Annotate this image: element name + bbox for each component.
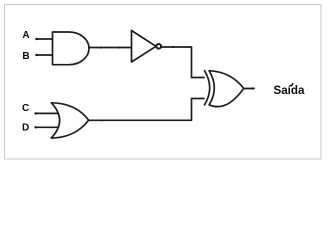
junction blob wire A start <box>35 38 37 40</box>
or-gate U3 <box>51 103 88 138</box>
tick on OR output wire <box>101 120 103 122</box>
wire OR output to XOR bottom input <box>89 99 204 121</box>
svg-text:A: A <box>22 30 29 41</box>
svg-text:B: B <box>22 51 29 62</box>
frame border <box>5 5 322 160</box>
and-gate U1 <box>53 32 89 65</box>
tick on AND-NOT wire <box>100 47 102 49</box>
tick on NOT output wire <box>172 46 174 48</box>
inverter U2 bubble <box>156 44 161 49</box>
accent mark on Saida i <box>291 84 293 86</box>
inverter U2 triangle <box>132 31 157 63</box>
svg-text:D: D <box>22 123 29 134</box>
svg-text:C: C <box>22 103 29 114</box>
wire input D <box>35 126 58 128</box>
junction blob wire D start <box>34 126 36 128</box>
wire input C <box>35 112 58 114</box>
wire input B <box>36 54 52 56</box>
xor-gate U4 input arc <box>205 71 210 105</box>
wire input A <box>36 38 52 40</box>
wire XOR output <box>244 88 254 90</box>
wire AND output to inverter <box>89 47 132 49</box>
wire inverter output to XOR top input <box>162 47 204 78</box>
tick on AND-NOT wire 2 <box>118 47 120 49</box>
junction blob wire C start <box>34 112 36 114</box>
blob XOR output end <box>252 87 254 89</box>
svg-text:Saída: Saída <box>274 84 305 97</box>
junction blob wire B start <box>35 54 37 56</box>
xor-gate U4 body <box>209 71 244 107</box>
